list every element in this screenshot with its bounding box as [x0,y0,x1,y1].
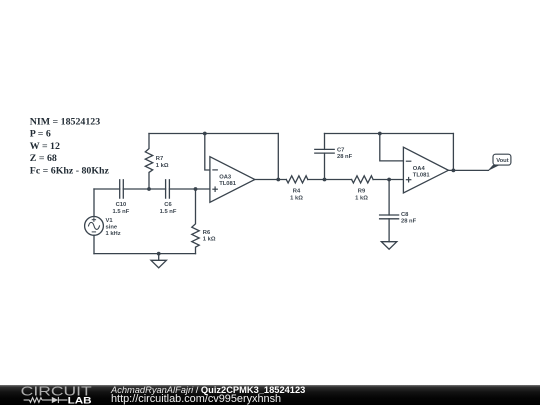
svg-text:1 kΩ: 1 kΩ [203,236,216,242]
wire C10 to C6 [123,188,165,190]
capacitor C6 [166,180,170,198]
svg-text:C6: C6 [164,202,172,208]
wire R4 to R9 [308,179,352,181]
node R7 bottom [147,187,151,191]
svg-text:R4: R4 [293,189,301,195]
capacitor C8 [380,180,399,242]
resistor R4 [286,176,308,183]
svg-text:C7: C7 [337,148,344,154]
wire OA3 output [255,179,286,181]
svg-text:1 kΩ: 1 kΩ [355,195,368,201]
voltage source V1 [85,189,104,254]
node OA3 output [276,178,280,182]
node top junction stage1 [203,132,207,136]
node OA4 output [452,169,456,173]
resistor R6 [192,189,199,254]
svg-text:C10: C10 [116,202,127,208]
node top junction stage2 [378,132,382,136]
svg-text:1 kΩ: 1 kΩ [156,163,169,169]
svg-text:OA3: OA3 [219,174,232,180]
svg-text:1.5 nF: 1.5 nF [160,209,177,215]
resistor R7 [145,134,152,190]
wire feedback stage1 vertical [277,134,279,180]
svg-text:1.5 nF: 1.5 nF [113,209,130,215]
node ground junction [157,252,161,256]
node C8 top [387,178,391,182]
wire OA4 output [448,169,488,171]
svg-text:OA4: OA4 [413,166,426,172]
svg-text:P = 6: P = 6 [30,129,51,140]
node R6 top [194,187,198,191]
text annotation block [30,116,110,176]
ground stage2 [381,242,396,250]
wire to inverting input OA3 [205,134,210,171]
wire top feedback stage2 [325,133,454,135]
svg-text:R7: R7 [156,156,163,162]
ground stage1 [151,254,166,268]
svg-text:http://circuitlab.com/cv995ery: http://circuitlab.com/cv995eryxhnsh [111,393,281,405]
capacitor C10 [120,180,124,198]
svg-text:1 kΩ: 1 kΩ [290,195,303,201]
wire top feedback stage1 [149,133,278,135]
wire feedback stage2 vertical [452,134,454,171]
svg-text:1 kHz: 1 kHz [106,231,121,237]
svg-text:sine: sine [106,225,118,231]
node C7 bottom [323,178,327,182]
svg-text:LAB: LAB [68,395,92,405]
op-amp OA3 [210,157,255,203]
svg-text:NIM = 18524123: NIM = 18524123 [30,116,100,127]
svg-text:TL081: TL081 [219,181,237,187]
resistor R9 [352,176,374,183]
svg-text:Vout: Vout [496,158,509,164]
svg-text:C8: C8 [401,212,409,218]
flag Vout [487,154,511,171]
svg-text:R9: R9 [358,189,366,195]
wire to inverting input OA4 [380,134,404,161]
wire bottom rail [94,253,196,255]
svg-text:Fc = 6Khz - 80Khz: Fc = 6Khz - 80Khz [30,166,110,177]
svg-text:R6: R6 [203,230,211,236]
logo wire resistor diode [24,397,68,403]
svg-text:V1: V1 [106,218,114,224]
svg-text:Z = 68: Z = 68 [30,153,57,164]
svg-text:28 nF: 28 nF [401,218,417,224]
wire input segment V1 to C10 [94,188,120,190]
wire C6 to noninverting input OA3 [169,188,210,190]
svg-text:28 nF: 28 nF [337,154,353,160]
op-amp OA4 [403,147,448,193]
capacitor C7 [315,134,334,180]
svg-text:W = 12: W = 12 [30,141,60,152]
wire R9 to noninverting input OA4 [373,179,403,181]
svg-text:TL081: TL081 [413,172,431,178]
